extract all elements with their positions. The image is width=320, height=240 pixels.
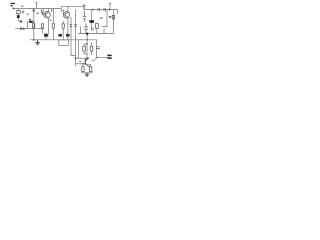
wire R13 leads [91,43,93,56]
component C8 [84,24,88,34]
node dot [75,57,77,59]
wire sub horizontal [76,57,89,59]
capacitor C3 [52,9,54,11]
wire box branch a [71,40,76,56]
label text [21,6,24,7]
capacitor C11 [70,25,72,27]
node dot [86,57,88,59]
component R11 [83,11,86,22]
wire branch R5 [62,21,64,40]
wire branch R4 [52,9,54,40]
node junction dark [86,33,88,35]
resistor R1 [33,24,35,28]
wire branch 1 [33,9,35,24]
wire drop at node B [83,5,85,9]
wire box branch b [75,40,77,66]
capacitor C9 electrolytic [89,20,94,23]
capacitor C2 [42,9,44,11]
ground G1 [35,40,40,45]
capacitor C1 [33,9,35,11]
component cluster D1 [44,34,48,37]
wire Q2 base [63,12,65,15]
wire stub up [109,3,111,9]
wire right edge drop [117,10,119,14]
wire right column 1 [102,10,108,27]
wire arrow tick [95,57,98,60]
wire base feed [76,63,86,65]
wire mid row [15,28,44,30]
label text [100,17,103,19]
label text [79,61,81,62]
wire sub bottom [81,72,93,74]
label text [26,14,29,15]
capacitor C10 [96,47,100,49]
wire antenna stub [35,3,37,9]
component ticks right of R6 [22,11,24,14]
resistor R15 [90,67,92,72]
wire bottom rail [30,39,97,41]
wire upper branch a [70,17,72,40]
wire right rail [84,9,118,11]
label text [36,12,39,14]
wire right column 2 [113,10,115,34]
label text [92,60,94,61]
wire loop arrow [29,19,31,22]
wire junction drop [86,35,88,40]
wire R12 leads [84,44,87,54]
resistor R12 [83,46,86,51]
output terminal label [107,55,111,59]
wire Q1 collector [47,9,49,13]
input terminal J1 label [11,3,16,10]
node dot [92,9,94,11]
component R10 [95,24,98,29]
capacitor ticks on base [41,12,43,13]
wire sub branch d [86,40,88,58]
capacitor C4 [62,9,64,11]
resistor R4 [52,24,54,28]
wire R15 top [89,65,91,67]
wire emitter drop [88,65,90,68]
wire Q2 collector [67,6,69,12]
capacitor C12 [74,25,76,27]
transistor Q1 [44,12,51,19]
wire C9 leads [91,10,93,29]
wire input rail [14,8,62,10]
wire Q1 base [42,12,45,15]
node dot [86,39,88,41]
wire Q1 emitter [46,17,48,39]
component cluster D2 [58,34,62,37]
wire R10 link [96,28,98,33]
wire feedback loop [28,22,35,29]
resistor R5 [62,24,64,28]
wire right mid rail [78,28,114,33]
wire branch at 80.5 [80,27,82,34]
transformer box T1 [59,40,69,46]
node dot [23,28,25,30]
in-line component ticks on rail [98,8,106,11]
node dot [109,9,111,11]
wire R14 top [82,64,84,67]
resistor R3 [41,24,43,28]
wire sub branch e [96,40,98,58]
capacitor C6 series [20,27,22,30]
resistor R2 feedback [29,21,32,23]
wire left branch [18,9,20,22]
wire Q2 emitter [67,17,69,39]
wire branch 1 lower [33,28,35,40]
wire branch R3 [42,28,44,34]
resistor R14 [82,67,84,72]
wire upper branch b [75,10,77,40]
label ticks [92,28,94,31]
wire sub branch c [78,40,80,58]
transistor Q2 [63,12,70,19]
node dot [33,39,35,41]
resistor R13 [90,46,93,51]
capacitor C5 polarized [17,15,20,18]
transistor Q3 [85,58,89,67]
resistor R6 [17,10,20,13]
ground G2 [85,73,89,77]
resistor R9 [112,16,114,19]
wire top-right rail [62,6,85,8]
label text [109,16,112,17]
node dot [86,43,88,45]
label text [50,20,53,21]
node dot [82,63,83,64]
component cluster D3 [66,34,70,37]
wire output [97,57,108,59]
label text [20,21,23,23]
